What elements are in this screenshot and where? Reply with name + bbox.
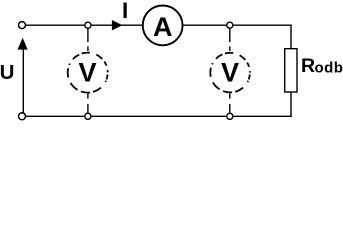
voltage arrow U (shaft) xyxy=(22,49,24,113)
voltmeter V2 lead top solid xyxy=(229,29,231,42)
current arrow I (head on top wire) xyxy=(112,20,123,30)
svg-text:U: U xyxy=(0,61,14,84)
svg-text:V: V xyxy=(78,58,96,88)
wire: right vertical lower (resistor bottom to corner) xyxy=(290,92,292,117)
voltmeter V1 body (dashed circle) xyxy=(68,53,108,93)
wire: top horizontal (terminal to right corner) xyxy=(26,24,292,26)
node: V1 bottom tap xyxy=(85,113,91,119)
voltage arrow U (head) xyxy=(18,38,28,50)
voltmeter V1 lead top dash xyxy=(87,46,89,51)
svg-text:R: R xyxy=(301,55,315,77)
svg-text:A: A xyxy=(153,12,173,42)
svg-text:odb: odb xyxy=(315,60,343,77)
node: V2 top tap xyxy=(227,22,233,28)
resistor Rodb body xyxy=(285,49,297,92)
node: V1 top tap xyxy=(85,22,91,28)
svg-text:I: I xyxy=(122,0,128,23)
voltmeter V1 lead bottom dash xyxy=(87,93,89,98)
ammeter A body xyxy=(143,6,183,46)
voltmeter V1 lead top solid xyxy=(87,29,89,42)
terminal: bottom-left input xyxy=(19,113,26,120)
wire: right vertical upper (corner to resistor top) xyxy=(290,25,292,49)
svg-text:V: V xyxy=(221,58,239,88)
voltmeter V2 lead bottom dash xyxy=(229,93,231,98)
terminal: top-left input xyxy=(19,22,26,29)
wire: bottom horizontal (terminal to right corner) xyxy=(26,115,292,117)
voltmeter V2 lead bottom solid xyxy=(229,104,231,113)
node: V2 bottom tap xyxy=(227,113,233,119)
voltmeter V2 lead top dash xyxy=(229,46,231,51)
voltmeter V2 body (dashed circle) xyxy=(210,53,250,93)
voltmeter V1 lead bottom solid xyxy=(87,104,89,113)
